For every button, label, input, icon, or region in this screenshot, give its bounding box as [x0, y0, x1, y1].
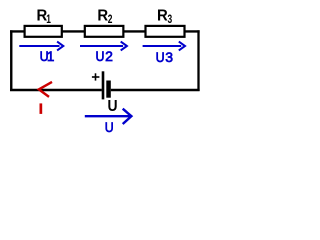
svg-text:1: 1	[47, 49, 55, 64]
source voltage arrow U	[85, 109, 132, 124]
wire: top horizontal	[10, 30, 200, 32]
wire: right vertical	[197, 30, 199, 91]
battery plus sign	[92, 73, 100, 80]
label I	[40, 103, 43, 114]
svg-text:2: 2	[105, 48, 113, 64]
svg-text:R: R	[97, 7, 108, 25]
svg-text:U: U	[96, 49, 105, 65]
svg-text:1: 1	[46, 14, 51, 27]
svg-text:R: R	[157, 7, 168, 25]
label U2	[96, 48, 114, 64]
resistor R3	[146, 26, 185, 37]
resistor R2	[85, 26, 124, 37]
label R3	[157, 7, 172, 27]
resistor R1	[25, 26, 62, 37]
current arrow I	[39, 82, 52, 97]
label U1	[40, 49, 55, 65]
voltage arrow U3	[143, 42, 185, 51]
label U3	[156, 49, 174, 65]
label R1	[37, 7, 52, 27]
voltage arrow U2	[80, 42, 127, 51]
wire: left vertical	[10, 30, 12, 91]
svg-text:U: U	[156, 50, 165, 66]
svg-text:3: 3	[165, 49, 173, 65]
wire: bottom left segment	[10, 89, 102, 92]
wire: bottom right segment	[111, 89, 200, 92]
voltage arrow U1	[19, 42, 63, 51]
svg-text:U: U	[105, 119, 114, 135]
battery long plate (positive)	[102, 71, 105, 99]
battery short plate (negative)	[106, 81, 111, 98]
svg-text:2: 2	[108, 14, 113, 27]
label R2	[97, 7, 112, 27]
svg-text:U: U	[108, 97, 118, 115]
svg-text:3: 3	[168, 14, 173, 27]
